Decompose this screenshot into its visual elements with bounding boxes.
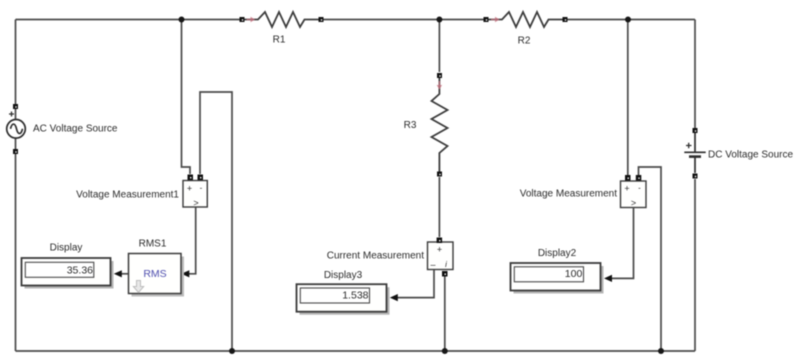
DC Voltage Source xyxy=(684,128,705,179)
bottom rail junction dot 1 xyxy=(229,348,235,354)
resistor R2 xyxy=(484,12,568,27)
R1 value label xyxy=(273,35,286,46)
wire RMS1 output to Display xyxy=(114,270,128,277)
Display2 block xyxy=(511,263,604,294)
svg-text:–: – xyxy=(430,260,435,270)
Display label xyxy=(50,243,83,254)
bottom rail junction dot 2 xyxy=(442,348,448,354)
svg-text:R1: R1 xyxy=(273,35,286,46)
wire bottom rail xyxy=(16,350,696,352)
svg-text:i: i xyxy=(445,260,447,269)
wire Voltage Measurement minus terminal loop to bottom rail xyxy=(639,167,662,351)
R2 current direction arrow xyxy=(491,17,500,22)
resistor R3 xyxy=(432,73,448,177)
wire R1 to R2 segment xyxy=(322,19,485,21)
svg-text:R2: R2 xyxy=(518,36,531,47)
Display3 block xyxy=(297,284,390,315)
R3 current direction arrow xyxy=(437,81,442,90)
node A junction dot xyxy=(179,17,185,23)
svg-text:AC Voltage Source: AC Voltage Source xyxy=(33,124,118,135)
wire top-left rail xyxy=(16,19,242,21)
wire node B to R3 top xyxy=(438,20,440,73)
svg-text:35.36: 35.36 xyxy=(67,264,93,276)
svg-text:+: + xyxy=(437,245,442,255)
Voltage Measurement label xyxy=(520,189,618,200)
svg-text:Display: Display xyxy=(50,243,83,254)
AC Voltage Source label xyxy=(33,124,118,135)
Display block xyxy=(22,258,114,289)
svg-text:Display3: Display3 xyxy=(324,270,363,281)
resistor R1 xyxy=(240,12,324,27)
AC Voltage Source xyxy=(7,104,26,154)
svg-text:>: > xyxy=(631,198,636,208)
wire Voltage Measurement1 minus terminal loop to bottom rail xyxy=(200,92,232,351)
Voltage Measurement block U3 xyxy=(621,175,647,208)
svg-text:Display2: Display2 xyxy=(538,248,577,259)
svg-text:1.538: 1.538 xyxy=(342,289,368,301)
wire right vertical (DC source branch) xyxy=(694,20,696,352)
R1 current direction arrow xyxy=(247,17,256,22)
wire Current Measurement signal output to Display3 xyxy=(390,270,434,301)
svg-text:+: + xyxy=(624,184,629,194)
svg-text:100: 100 xyxy=(565,268,583,280)
wire Current Measurement minus terminal to bottom rail xyxy=(444,276,446,351)
wire junction at node A to Voltage Measurement1 plus terminal xyxy=(182,20,191,175)
svg-text:Voltage Measurement: Voltage Measurement xyxy=(520,189,618,200)
wire R2 to right corner xyxy=(566,19,695,21)
svg-text:RMS1: RMS1 xyxy=(139,238,167,249)
svg-text:Voltage Measurement1: Voltage Measurement1 xyxy=(76,190,179,201)
svg-text:RMS: RMS xyxy=(143,268,166,280)
R2 value label xyxy=(518,36,531,47)
wire Voltage Measurement output to Display2 xyxy=(604,208,634,283)
wire Voltage Measurement1 output to RMS1 xyxy=(181,207,195,277)
svg-text:Current Measurement: Current Measurement xyxy=(327,251,424,262)
Voltage Measurement1 block U1 xyxy=(183,175,207,209)
wire Voltage Measurement plus terminal to top rail node C xyxy=(627,20,629,176)
DC Voltage Source label xyxy=(708,150,793,161)
wire R3 bottom to Current Measurement top xyxy=(438,177,440,237)
node C junction dot xyxy=(625,17,631,23)
Current Measurement block U2 xyxy=(428,238,454,277)
svg-text:DC Voltage Source: DC Voltage Source xyxy=(708,150,793,161)
R3 value label xyxy=(404,120,417,131)
RMS1 label xyxy=(139,238,167,249)
Display3 label xyxy=(324,270,363,281)
Display2 label xyxy=(538,248,577,259)
node B junction dot xyxy=(436,17,442,23)
wire left vertical (AC source branch) xyxy=(15,20,17,352)
svg-text:R3: R3 xyxy=(404,120,417,131)
svg-text:+: + xyxy=(187,184,192,194)
svg-text:-: - xyxy=(638,184,641,193)
svg-text:-: - xyxy=(200,184,203,193)
Voltage Measurement1 label xyxy=(76,190,179,201)
bottom rail junction dot 3 xyxy=(658,348,664,354)
svg-text:>: > xyxy=(193,198,198,208)
RMS1 block xyxy=(129,254,185,297)
Current Measurement label xyxy=(327,251,424,262)
